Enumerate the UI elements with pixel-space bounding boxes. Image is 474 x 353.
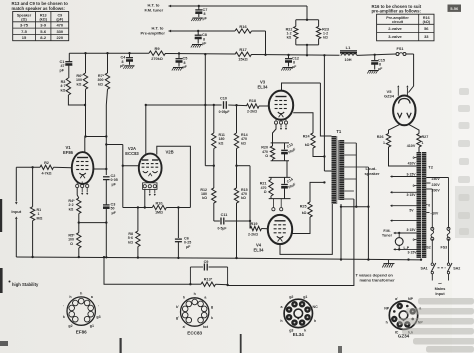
ground chassis symbol (388, 260, 390, 263)
wire ground rail (16, 257, 421, 260)
wire (235, 104, 237, 106)
svg-text:R17: R17 (239, 47, 247, 52)
ground (125, 65, 135, 67)
svg-text:h: h (314, 319, 316, 323)
svg-text:R25: R25 (300, 205, 307, 209)
svg-text:200V: 200V (432, 188, 441, 192)
svg-text:kΩ: kΩ (128, 240, 133, 244)
svg-text:5-6: 5-6 (40, 29, 47, 34)
wire (389, 147, 417, 166)
wire R22/R23 top bracket (296, 19, 319, 21)
wire HT vertical feed (204, 53, 206, 55)
svg-text:F.M. tuner: F.M. tuner (145, 7, 164, 12)
svg-text:15: 15 (22, 35, 27, 40)
svg-text:k: k (63, 315, 65, 319)
wire (236, 149, 238, 189)
resistor R25 (308, 202, 312, 217)
svg-text:T1: T1 (336, 129, 342, 134)
svg-text:5V: 5V (409, 208, 414, 212)
svg-text:kΩ: kΩ (219, 141, 224, 145)
wire (32, 221, 34, 257)
wire (105, 180, 107, 205)
capacitor C8 (197, 30, 199, 32)
switch SA1 (431, 263, 433, 265)
wire (271, 142, 289, 144)
svg-text:C10: C10 (220, 97, 227, 101)
resistor R5 (77, 233, 81, 248)
wire (225, 220, 250, 222)
svg-text:k: k (211, 316, 213, 320)
capacitor C2 (103, 176, 110, 178)
pin box V2 (143, 183, 157, 190)
wire (169, 30, 172, 33)
svg-text:0: 0 (413, 156, 415, 160)
wire secondary taps (344, 142, 356, 144)
socket ECC83 base diagram (181, 298, 209, 326)
wire (169, 5, 172, 8)
svg-text:h: h (80, 291, 82, 295)
ground (369, 70, 379, 72)
wire (341, 206, 368, 208)
ground (193, 17, 203, 19)
svg-text:kΩ: kΩ (323, 36, 328, 40)
resistor R1 (31, 166, 33, 168)
svg-text:3·15V: 3·15V (406, 193, 416, 197)
svg-text:g: g (211, 305, 213, 309)
wire (15, 167, 17, 201)
svg-text:NP: NP (384, 307, 390, 311)
wire loudspeaker line (367, 167, 369, 207)
wire (105, 137, 107, 145)
resistor R22 (295, 20, 297, 27)
wire HT rail (69, 52, 149, 54)
capacitor C13 (284, 143, 286, 150)
wire (105, 145, 107, 176)
wire grid stub V2A (122, 165, 124, 167)
svg-text:R16: R16 (239, 24, 247, 29)
svg-text:3-75: 3-75 (20, 23, 29, 28)
wire (15, 217, 18, 219)
svg-text:R2: R2 (44, 161, 49, 165)
resistor R9 (149, 51, 166, 55)
svg-text:0: 0 (413, 184, 415, 188)
resistor R17 (235, 52, 252, 56)
svg-text:5-56: 5-56 (450, 6, 459, 11)
wire V2A anode (145, 104, 147, 106)
capacitor C5 (178, 52, 180, 54)
resistor R3 (66, 78, 70, 95)
svg-text:L.P: L.P (404, 246, 410, 250)
pin circles V1 (76, 182, 78, 185)
svg-text:(kΩ): (kΩ) (39, 17, 47, 21)
ground (173, 67, 183, 69)
svg-text:330: 330 (56, 29, 63, 34)
pin circles V3 (275, 119, 277, 121)
svg-text:pre-amplifier as follows:: pre-amplifier as follows: (372, 9, 422, 14)
socket GZ34 base diagram (389, 301, 417, 329)
svg-text:SA1: SA1 (421, 267, 428, 271)
pin circles V4 top (272, 199, 274, 208)
wire (166, 207, 190, 209)
svg-text:h: h (194, 292, 196, 296)
wire jog to C3 (79, 222, 107, 224)
wire to V2A grid line (106, 144, 123, 146)
svg-text:EF86: EF86 (76, 330, 87, 335)
wire (306, 6, 308, 20)
resistor R26 (386, 134, 390, 148)
wire V3 grid (259, 105, 269, 107)
wire cathode V1 (77, 188, 79, 198)
svg-text:kΩ: kΩ (77, 82, 82, 86)
wire (418, 147, 420, 152)
wire (355, 143, 357, 207)
wire (105, 208, 107, 257)
svg-text:R27: R27 (422, 135, 429, 139)
svg-text:FS3: FS3 (441, 246, 448, 250)
svg-text:kΩ: kΩ (302, 211, 307, 215)
svg-text:high Stability: high Stability (12, 282, 39, 287)
wire cathode V2 (144, 190, 146, 208)
capacitor C10 (223, 101, 225, 109)
svg-text:56: 56 (424, 26, 429, 31)
svg-text:2-valve: 2-valve (388, 26, 402, 31)
resistor R15 (234, 188, 238, 203)
wire (431, 274, 433, 281)
svg-text:(pF): (pF) (56, 17, 64, 21)
svg-text:R24: R24 (303, 135, 311, 139)
wire (431, 189, 433, 229)
wire feedback (228, 199, 354, 286)
wire dashed link (438, 267, 446, 269)
wire mains taps (426, 177, 448, 179)
resistor R6 (84, 52, 86, 54)
svg-text:speaker: speaker (364, 171, 380, 176)
heater pins V3 (280, 124, 282, 127)
fuse FS2 (431, 227, 434, 230)
wire screen V3 (293, 113, 313, 133)
wire (166, 53, 236, 56)
capacitor C11 (214, 220, 220, 222)
svg-text:·: · (98, 304, 99, 308)
svg-text:3·15V: 3·15V (407, 251, 417, 255)
resistor R14 (236, 105, 238, 133)
svg-text:R18: R18 (249, 99, 256, 103)
wire jog (205, 165, 214, 167)
svg-text:Ω: Ω (264, 190, 267, 194)
svg-text:R26: R26 (377, 135, 384, 139)
resistor R12 (212, 188, 216, 203)
wire cathode V3 (273, 124, 277, 143)
svg-text:h: h (280, 319, 282, 323)
svg-text:R10: R10 (156, 201, 163, 205)
wire anode feed V1 (85, 89, 87, 136)
svg-text:R9: R9 (154, 46, 160, 51)
svg-text:220: 220 (56, 35, 63, 40)
page number box 5-56 (448, 5, 462, 12)
svg-text:1MΩ: 1MΩ (155, 211, 163, 215)
svg-text:2·2kΩ: 2·2kΩ (247, 110, 257, 114)
svg-text:33: 33 (424, 34, 429, 39)
wire (269, 176, 291, 178)
resistor R2 (40, 165, 54, 169)
resistor R16 (235, 29, 252, 33)
wire (177, 242, 179, 258)
svg-text:3-9: 3-9 (40, 23, 47, 28)
ground (283, 67, 293, 69)
wire HT centre tap (323, 54, 325, 56)
svg-text:kΩ: kΩ (61, 88, 66, 92)
svg-text:·: · (63, 304, 64, 308)
svg-text:0·05µF: 0·05µF (219, 110, 230, 114)
svg-text:L1: L1 (346, 45, 351, 50)
svg-text:kΩ: kΩ (241, 196, 246, 200)
capacitor C1 (65, 61, 72, 63)
svg-text:Input: Input (11, 209, 21, 214)
svg-text:4·7kΩ: 4·7kΩ (41, 172, 51, 176)
wire screen V4 (292, 217, 310, 234)
svg-text:Ω: Ω (265, 154, 268, 158)
svg-text:0·5µF: 0·5µF (218, 227, 227, 231)
wire R22/R23 bottom bracket (296, 44, 319, 46)
wire (357, 54, 396, 55)
svg-text:(kΩ): (kΩ) (423, 20, 431, 24)
print-through bottom right block (418, 298, 474, 305)
wire (236, 203, 238, 258)
svg-text:15kΩ: 15kΩ (238, 58, 247, 62)
svg-text:220V: 220V (432, 183, 441, 187)
svg-text:270kΩ: 270kΩ (151, 57, 163, 61)
svg-text:h: h (183, 296, 185, 300)
wire (68, 53, 70, 61)
wire (431, 239, 433, 263)
wire V2B grid loop (157, 146, 191, 207)
svg-text:EL34: EL34 (253, 247, 264, 252)
wire (306, 45, 308, 55)
wire (448, 178, 450, 229)
svg-text:h: h (386, 321, 388, 325)
svg-text:EL34: EL34 (257, 84, 268, 89)
resistor R18 (228, 104, 246, 107)
svg-text:k': k' (176, 305, 179, 309)
wire (252, 54, 340, 57)
svg-text:1: 1 (383, 141, 385, 145)
svg-text:GZ34: GZ34 (384, 93, 395, 98)
capacitor C3 (103, 204, 110, 206)
wire (213, 203, 215, 221)
wire (213, 149, 215, 189)
svg-text:∼: ∼ (438, 281, 442, 287)
wire (272, 159, 274, 160)
fuse FS3 (447, 227, 450, 230)
resistor R27 (417, 134, 421, 148)
wire (340, 204, 342, 260)
wire stub (237, 165, 251, 167)
wire (389, 125, 400, 134)
svg-text:1: 1 (422, 141, 424, 145)
capacitor C14 (284, 177, 286, 183)
svg-text:8-2: 8-2 (40, 35, 47, 40)
svg-text:3-valve: 3-valve (388, 34, 402, 39)
resistor R19 (250, 226, 262, 230)
svg-text:R19: R19 (251, 222, 258, 226)
switch SA2 (447, 263, 449, 265)
resistor R11 (213, 104, 215, 106)
print-through right margin (459, 88, 469, 95)
svg-text:NC: NC (312, 305, 318, 309)
heater pins V1 (81, 188, 83, 193)
heater pins V5 top (397, 88, 399, 96)
svg-text:Mains: Mains (435, 287, 446, 291)
capacitor C15 (374, 54, 376, 56)
wire (448, 274, 450, 281)
socket EF86 base diagram (67, 297, 95, 325)
svg-text:k: k (304, 329, 306, 333)
wire (270, 196, 272, 199)
svg-text:Input: Input (435, 292, 445, 296)
svg-text:SA2: SA2 (453, 267, 460, 271)
svg-text:match speaker as follows:: match speaker as follows: (12, 6, 66, 11)
wire anode line y=105 (146, 104, 222, 106)
svg-text:g3: g3 (96, 315, 100, 319)
svg-text:F.M.: F.M. (383, 229, 390, 233)
scan edge artifacts (0, 199, 2, 232)
resistor R13 (190, 283, 201, 285)
wire (313, 148, 324, 157)
wire (406, 53, 414, 55)
socket EL34 base diagram (284, 299, 312, 327)
resistor R7 (106, 52, 108, 54)
wire g2 stub V1 (105, 168, 107, 170)
wire (367, 207, 369, 260)
svg-text:kΩ: kΩ (241, 141, 246, 145)
svg-text:a': a' (183, 325, 186, 329)
capacitor C6 (177, 208, 179, 239)
svg-text:circuit: circuit (392, 20, 404, 24)
svg-text:10H: 10H (345, 58, 352, 62)
svg-text:FS1: FS1 (397, 47, 404, 51)
svg-text:C11: C11 (221, 213, 228, 217)
wire (252, 30, 266, 32)
wire (310, 182, 324, 202)
svg-text:3·15V: 3·15V (406, 172, 416, 176)
svg-text:R13*: R13* (204, 278, 213, 282)
wire jog anode to C2 line (86, 136, 107, 138)
wire anode V4 (280, 204, 332, 254)
svg-text:MΩ: MΩ (37, 216, 43, 220)
wire heater taps (391, 176, 417, 178)
wire (68, 65, 70, 78)
svg-text:FS2: FS2 (424, 246, 431, 250)
resistor R21 (270, 177, 272, 179)
svg-text:kΩ: kΩ (98, 82, 103, 86)
capacitor C12 (287, 54, 289, 56)
svg-text:g': g' (176, 316, 179, 320)
wire 0 tap stubs (414, 157, 417, 159)
wire (54, 166, 72, 168)
resistor R23 (318, 20, 320, 27)
svg-text:0: 0 (413, 238, 415, 242)
svg-text:kΩ: kΩ (69, 207, 74, 211)
svg-text:(Ω): (Ω) (21, 17, 27, 21)
svg-text:ECC83: ECC83 (125, 151, 139, 156)
capacitor C4 (128, 52, 130, 54)
wire (137, 247, 139, 258)
svg-text:kΩ: kΩ (305, 143, 310, 147)
svg-text:−10V: −10V (430, 212, 439, 216)
svg-text:NP: NP (408, 297, 414, 301)
svg-text:Ω: Ω (70, 242, 73, 246)
svg-text:2·2kΩ: 2·2kΩ (248, 232, 258, 236)
svg-text:ECC83: ECC83 (187, 330, 202, 335)
wire (448, 239, 450, 263)
resistor R4 (77, 198, 81, 214)
svg-text:Tuner: Tuner (382, 234, 393, 238)
svg-text:7-5: 7-5 (21, 29, 28, 34)
wire (78, 248, 80, 257)
svg-text:mains transformer: mains transformer (360, 277, 396, 282)
svg-text:h: h (69, 295, 71, 299)
svg-text:kΩ: kΩ (287, 36, 292, 40)
svg-text:g1: g1 (90, 324, 94, 328)
wire (78, 214, 80, 233)
capacitor C7 (198, 5, 200, 7)
wire (320, 83, 331, 136)
svg-text:g1: g1 (303, 295, 307, 299)
svg-text:C9: C9 (204, 260, 209, 264)
svg-text:T2: T2 (428, 165, 433, 170)
wire (68, 95, 85, 105)
svg-text:EL34: EL34 (293, 332, 304, 337)
resistor R10 (152, 205, 166, 209)
wire (409, 125, 419, 134)
resistor R8 (137, 206, 139, 208)
svg-text:EF86: EF86 (63, 150, 74, 155)
svg-text:Pre-amplifier: Pre-amplifier (141, 30, 166, 35)
svg-text:g2: g2 (289, 295, 293, 299)
wire (106, 89, 107, 105)
wire (286, 161, 288, 178)
ground (192, 44, 202, 46)
svg-text:410V: 410V (407, 144, 416, 148)
svg-text:g2: g2 (68, 324, 72, 328)
resistor R24 (311, 133, 315, 148)
svg-text:410V: 410V (408, 162, 417, 166)
heater pins V2 (149, 190, 151, 194)
svg-text:kΩ: kΩ (202, 196, 207, 200)
wire anode V3 (282, 83, 321, 91)
wire cathode line y=207.5 (123, 207, 153, 209)
wire (204, 105, 206, 166)
wire V4 grid (262, 228, 269, 230)
note high stability (9, 281, 11, 283)
wire (104, 257, 190, 284)
capacitor C9 (189, 267, 191, 284)
svg-text:a': a' (395, 297, 398, 301)
svg-text:V2B: V2B (166, 150, 174, 155)
svg-text:0: 0 (428, 204, 430, 208)
wire (16, 166, 40, 168)
svg-text:hct: hct (203, 325, 209, 329)
svg-text:470: 470 (56, 23, 63, 28)
svg-text:3·15V: 3·15V (406, 228, 416, 232)
resistor R20 (270, 146, 274, 159)
